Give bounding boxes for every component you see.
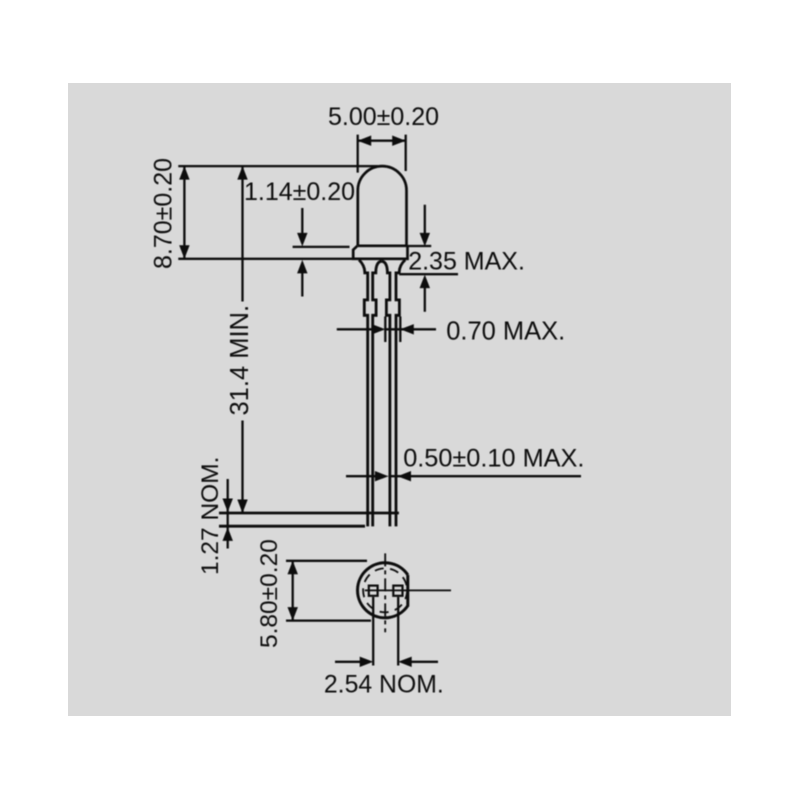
svg-text:5.80±0.20: 5.80±0.20 xyxy=(256,539,283,648)
svg-text:0.50±0.10 MAX.: 0.50±0.10 MAX. xyxy=(403,445,584,473)
svg-text:8.70±0.20: 8.70±0.20 xyxy=(150,158,178,269)
svg-text:2.54 NOM.: 2.54 NOM. xyxy=(324,672,444,699)
svg-text:5.00±0.20: 5.00±0.20 xyxy=(328,103,439,131)
svg-text:0.70 MAX.: 0.70 MAX. xyxy=(446,318,565,346)
svg-text:1.27 NOM.: 1.27 NOM. xyxy=(197,457,224,575)
svg-text:1.14±0.20: 1.14±0.20 xyxy=(244,178,355,206)
svg-text:2.35 MAX.: 2.35 MAX. xyxy=(408,248,525,276)
svg-text:31.4 MIN.: 31.4 MIN. xyxy=(226,305,254,416)
